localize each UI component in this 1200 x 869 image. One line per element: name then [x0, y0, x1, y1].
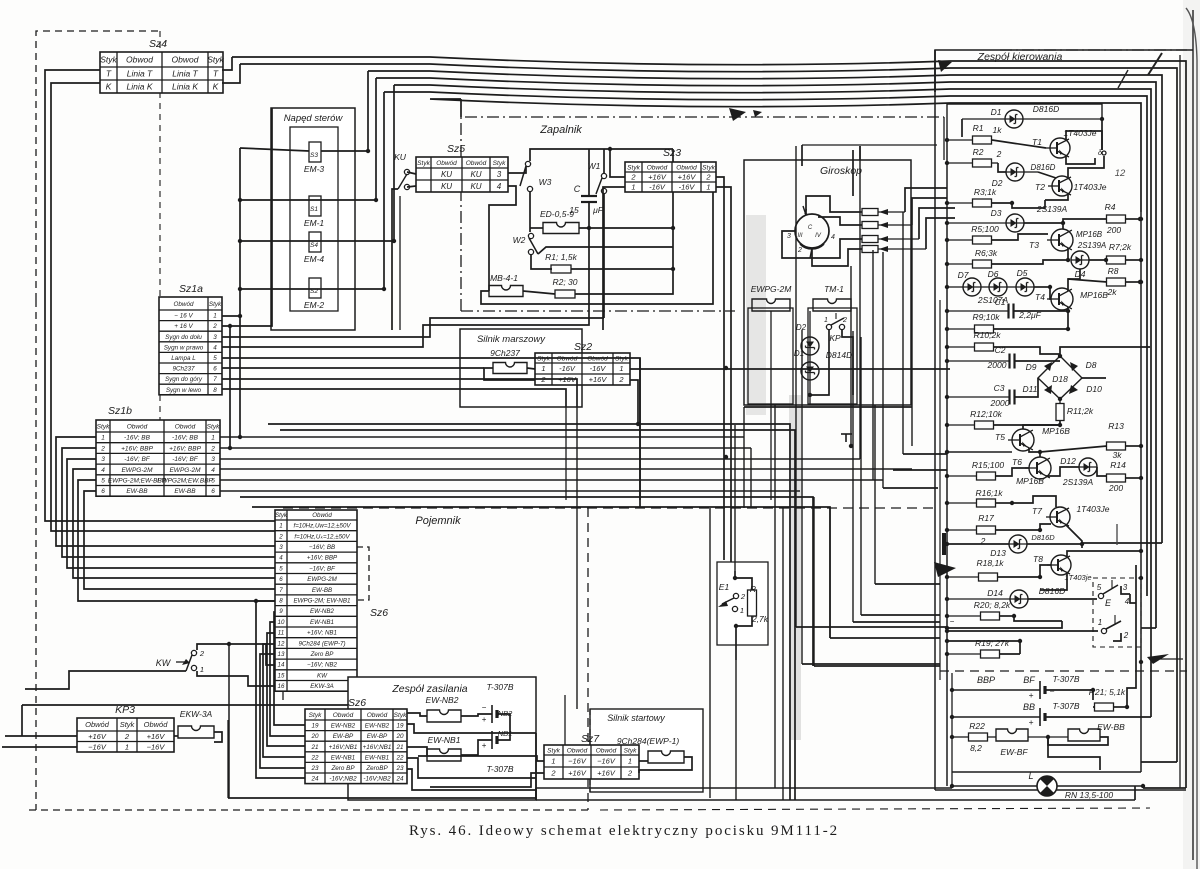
wire nested bottoms — [1082, 542, 1162, 544]
svg-text:μF: μF — [592, 205, 604, 215]
wire ED left — [530, 227, 543, 229]
svg-text:EWPG-2M; EW-NB1: EWPG-2M; EW-NB1 — [294, 598, 351, 605]
wire MB-4-1 loop — [481, 191, 713, 304]
wire Linia-T top run — [222, 57, 232, 70]
inner top frame (zk) — [947, 104, 1102, 130]
svg-text:TM-1: TM-1 — [824, 284, 844, 294]
svg-text:Rys. 46. Ideowy schemat elektr: Rys. 46. Ideowy schemat elektryczny poci… — [409, 823, 839, 839]
svg-text:Silnik marszowy: Silnik marszowy — [477, 334, 546, 345]
svg-text:Sz3: Sz3 — [663, 147, 681, 159]
svg-text:-16V; BB: -16V; BB — [124, 435, 151, 442]
wire EM-3 signal top run — [368, 71, 1162, 543]
svg-text:Sygn w lewo: Sygn w lewo — [166, 387, 202, 394]
svg-text:Giroskop: Giroskop — [820, 165, 862, 177]
gyro pickoff resistor 3 — [862, 236, 878, 243]
svg-text:Zespół kierowania: Zespół kierowania — [977, 51, 1063, 63]
svg-text:9Ch237: 9Ch237 — [172, 366, 195, 373]
svg-text:Styk: Styk — [209, 301, 222, 308]
wire W3 top node — [530, 149, 673, 161]
svg-text:1T403Je: 1T403Je — [1073, 182, 1106, 192]
svg-text:1T403је: 1T403је — [1064, 573, 1091, 582]
svg-text:-16V; BF: -16V; BF — [172, 456, 199, 463]
wire Sz3 right row2 down — [716, 177, 724, 560]
svg-text:1T403Je: 1T403Je — [1063, 128, 1096, 138]
wire T8 collector — [1067, 551, 1141, 557]
page edge scan line — [1192, 10, 1194, 860]
svg-text:EM-2: EM-2 — [304, 300, 325, 310]
wire R22 to EW-BF — [988, 736, 996, 738]
wire KP down — [810, 330, 829, 395]
wire EM-2 row — [240, 288, 384, 290]
svg-text:EW-NB1: EW-NB1 — [331, 754, 355, 761]
svg-text:+16V;NB1: +16V;NB1 — [363, 744, 392, 751]
wire R21 — [1093, 706, 1095, 708]
arrow pickoff 4 — [879, 246, 888, 252]
wire T3 collector/emitter — [1062, 223, 1064, 229]
svg-text:Lampa L: Lampa L — [171, 355, 196, 362]
wire Sz1b row4 left loop to Sz6 — [73, 469, 275, 578]
svg-text:IV: IV — [815, 233, 822, 239]
svg-text:-16V;NB2: -16V;NB2 — [363, 776, 391, 783]
svg-text:3k: 3k — [1113, 450, 1123, 460]
svg-text:Obwod: Obwod — [126, 55, 153, 65]
svg-text:R8: R8 — [1108, 266, 1119, 276]
svg-text:R9;10k: R9;10k — [973, 312, 1001, 322]
wire T8 emitter — [1040, 573, 1067, 590]
svg-text:D7: D7 — [958, 270, 969, 280]
wire D13 row — [947, 543, 1009, 545]
svg-text:Obwód: Obwód — [466, 160, 487, 167]
svg-text:EWPG-2M: EWPG-2M — [751, 284, 793, 294]
svg-text:6: 6 — [211, 488, 215, 495]
svg-text:9Ch284(EWP-1): 9Ch284(EWP-1) — [617, 736, 680, 746]
svg-text:Sygn do góry: Sygn do góry — [165, 376, 203, 383]
wire KP3 right to EKW-3A — [174, 735, 178, 737]
svg-text:W3: W3 — [539, 177, 552, 187]
wire Sz3 left row2 — [610, 149, 625, 177]
wire R9 row — [947, 328, 974, 330]
wire right bus 1141 — [1140, 212, 1142, 772]
svg-text:EW-BB: EW-BB — [1097, 722, 1125, 732]
svg-text:D816D: D816D — [1031, 533, 1055, 542]
svg-text:−: − — [1050, 686, 1055, 696]
svg-text:Obwód: Obwód — [144, 720, 169, 729]
box battery frame — [951, 673, 953, 786]
wire R2 row — [947, 162, 973, 164]
wire D1 row — [962, 118, 1005, 120]
wire D1 right down — [1101, 119, 1103, 150]
svg-text:2: 2 — [630, 173, 636, 182]
wire KW row16 — [197, 671, 275, 686]
box Zespol zasilania — [348, 677, 536, 800]
wire EM-1 row — [240, 199, 376, 201]
svg-text:2: 2 — [124, 732, 130, 741]
ground mark mid — [841, 433, 852, 435]
svg-text:L: L — [1028, 771, 1033, 781]
svg-text:1k: 1k — [993, 125, 1003, 135]
wire extra mid horizontals — [268, 424, 790, 800]
wire battery chain — [461, 714, 492, 716]
wire Sz1b row3 left loop to Sz6 — [67, 459, 275, 568]
wire squib loop — [484, 368, 535, 380]
switch E dashed box — [1093, 578, 1141, 647]
wire W3 down to W2 — [529, 192, 531, 232]
svg-text:K: K — [213, 82, 219, 92]
wire Sz4-K left to Sz6 pin2 — [51, 83, 275, 531]
arrow pickoff 3 — [879, 236, 888, 242]
svg-text:20: 20 — [310, 733, 319, 740]
pencil scribble — [1116, 524, 1118, 545]
svg-text:EWPG-2M: EWPG-2M — [121, 467, 153, 474]
transistor T2 (1T403Je) — [1048, 176, 1072, 196]
svg-text:Linia K: Linia K — [172, 82, 198, 92]
svg-text:22: 22 — [395, 754, 404, 761]
svg-text:Sz2: Sz2 — [574, 341, 592, 353]
wire EW-BF to EW-BB — [1028, 736, 1068, 738]
arrow pickoff 2 — [879, 222, 888, 228]
svg-text:+16V: +16V — [568, 769, 587, 778]
svg-text:+16V: +16V — [678, 173, 697, 182]
svg-text:4: 4 — [101, 467, 105, 474]
svg-text:D1: D1 — [991, 107, 1002, 117]
svg-text:1: 1 — [213, 313, 217, 320]
wire Sz4-T left to Sz6 pin1 — [45, 70, 275, 521]
wire R16 row — [947, 502, 976, 504]
svg-text:19: 19 — [396, 723, 404, 730]
svg-text:R13: R13 — [1108, 421, 1124, 431]
svg-text:2: 2 — [199, 649, 205, 658]
svg-text:T7: T7 — [1032, 506, 1042, 516]
wire C1 row — [947, 310, 1008, 312]
svg-text:R15;100: R15;100 — [972, 460, 1004, 470]
gyro rotor symbol — [795, 214, 829, 248]
svg-text:20: 20 — [395, 733, 404, 740]
svg-text:ED-0,5-9: ED-0,5-9 — [540, 209, 574, 219]
thick mark left bus — [942, 533, 946, 555]
wire EKW-3A right down — [214, 732, 222, 742]
electromagnet EM-1 — [309, 196, 321, 216]
wire Sz1b row2 left loop to Sz6 — [62, 448, 275, 557]
svg-text:Obwód: Obwód — [333, 712, 354, 719]
gyro wires to pickoffs — [806, 196, 862, 215]
svg-text:EW-NB2: EW-NB2 — [310, 608, 335, 615]
svg-text:21: 21 — [395, 744, 403, 751]
svg-text:2,7k: 2,7k — [751, 614, 769, 624]
svg-text:Zero BP: Zero BP — [330, 765, 355, 772]
wire vertical from Sz1a r8 — [565, 407, 567, 500]
wire EM-3 row — [321, 150, 368, 152]
switch W3 — [508, 167, 526, 173]
wire T2 links — [1038, 172, 1056, 178]
svg-text:MP16B: MP16B — [1016, 476, 1044, 486]
svg-text:3: 3 — [213, 334, 217, 341]
wire W2 down — [531, 255, 552, 269]
wire Sz1b row4 right run — [220, 468, 912, 470]
wire TM-1 bottom — [809, 395, 811, 405]
svg-text:D13: D13 — [990, 548, 1006, 558]
wire bottom run y788 — [536, 787, 952, 789]
svg-text:Sz1b: Sz1b — [108, 405, 132, 417]
svg-text:R18,1k: R18,1k — [977, 558, 1005, 568]
svg-text:Obwód: Obwód — [647, 164, 668, 171]
connector table Sz6 (pojemnik) — [275, 510, 357, 691]
svg-text:MP16B: MP16B — [1042, 426, 1070, 436]
svg-text:MB-4-1: MB-4-1 — [490, 273, 518, 283]
box E1 — [717, 562, 768, 645]
svg-text:EW-NB1: EW-NB1 — [428, 735, 461, 745]
svg-text:10: 10 — [278, 619, 285, 626]
wire R22 left — [952, 736, 968, 738]
wire Sz2 row1 right — [630, 368, 950, 370]
svg-text:22: 22 — [310, 754, 319, 761]
wire bottom right up — [1134, 786, 1136, 800]
svg-text:Sz1a: Sz1a — [179, 283, 203, 295]
svg-text:C1: C1 — [995, 297, 1006, 307]
svg-text:Sz6: Sz6 — [370, 607, 388, 619]
svg-text:+16V: +16V — [648, 173, 667, 182]
svg-text:Styk: Styk — [394, 712, 407, 719]
wire battery BF row — [952, 689, 1040, 691]
svg-text:Zapalnik: Zapalnik — [539, 124, 582, 136]
svg-text:T5: T5 — [995, 432, 1005, 442]
box Giroskop — [744, 160, 911, 405]
wire KP3 +16V left — [5, 735, 77, 737]
wire T4 emitter down — [1067, 307, 1069, 327]
svg-text:Obwód: Obwód — [175, 423, 196, 430]
svg-text:-16V: -16V — [649, 183, 666, 192]
svg-text:+16V: +16V — [597, 769, 616, 778]
svg-text:K: K — [106, 82, 112, 92]
svg-text:5: 5 — [213, 355, 217, 362]
wire EM-1 signal top run — [376, 78, 1156, 628]
svg-text:−16V; NB2: −16V; NB2 — [307, 662, 338, 669]
wire R7 right — [1126, 259, 1140, 261]
wire EM-4 signal top run — [394, 85, 1151, 717]
svg-text:7: 7 — [213, 376, 217, 383]
svg-text:Linia T: Linia T — [172, 69, 198, 79]
svg-text:Styk: Styk — [624, 747, 637, 754]
wire Sz6 row14 to zasilanie — [256, 601, 305, 778]
svg-text:1: 1 — [628, 757, 632, 766]
svg-text:EM-4: EM-4 — [304, 254, 325, 264]
inner frame Naped sterow — [290, 127, 338, 311]
svg-text:1: 1 — [101, 435, 105, 442]
svg-text:T: T — [213, 69, 219, 79]
wire mid right corners into zk — [903, 453, 947, 455]
wire bridge top right — [1060, 347, 1150, 356]
zener D13 (D816D) — [1009, 535, 1027, 553]
svg-text:ZeroBP: ZeroBP — [365, 765, 388, 772]
svg-text:1: 1 — [1098, 618, 1102, 627]
svg-text:3: 3 — [101, 456, 105, 463]
svg-text:1: 1 — [279, 523, 282, 530]
svg-text:EW-BB: EW-BB — [126, 488, 148, 495]
svg-text:23: 23 — [395, 765, 404, 772]
svg-text:5: 5 — [101, 478, 105, 485]
wire KP3 -16V left — [2, 746, 77, 748]
svg-text:C3: C3 — [994, 383, 1005, 393]
svg-text:EW-NB1: EW-NB1 — [365, 754, 389, 761]
wire T2 emitter down — [1045, 194, 1068, 200]
svg-text:EW-NB2: EW-NB2 — [426, 695, 459, 705]
svg-text:+16V; NB1: +16V; NB1 — [307, 630, 337, 637]
svg-text:R10;2k: R10;2k — [974, 330, 1002, 340]
svg-text:7: 7 — [279, 587, 283, 594]
wire Sz1b row1 left loop to Sz6 — [56, 437, 275, 546]
wire Sz6 row10 to zasilanie — [270, 622, 305, 736]
wire R8 — [1068, 279, 1107, 282]
svg-text:BF: BF — [1023, 675, 1035, 685]
wire bottom rows (zk) — [952, 771, 1141, 773]
svg-text:KU: KU — [394, 152, 407, 162]
wire vertical EKW down — [228, 644, 230, 798]
svg-text:2: 2 — [740, 592, 746, 601]
svg-text:9: 9 — [279, 608, 283, 615]
svg-text:−16V: −16V — [147, 743, 166, 752]
svg-text:−16V; BF: −16V; BF — [309, 565, 336, 572]
wire Sz1a row4 — [222, 228, 589, 347]
svg-text:2S139A: 2S139A — [1036, 204, 1068, 214]
svg-text:14: 14 — [278, 662, 285, 669]
svg-text:T2: T2 — [1035, 182, 1045, 192]
svg-text:EW-BB: EW-BB — [174, 488, 196, 495]
pen slash mark — [1148, 53, 1162, 75]
svg-text:Sygn do dołu: Sygn do dołu — [165, 334, 202, 341]
svg-text:E: E — [1105, 598, 1112, 608]
wire KW to KP3 — [25, 671, 186, 689]
wire W1 top to node — [603, 149, 605, 173]
svg-text:D9: D9 — [1026, 362, 1037, 372]
wire Sz1b row3 right run — [220, 458, 860, 460]
wire E wiring — [947, 630, 1098, 632]
wire R2 right up node — [575, 149, 673, 294]
svg-text:R7;2k: R7;2k — [1109, 242, 1132, 252]
wire R5 row — [947, 239, 973, 241]
svg-text:15: 15 — [278, 672, 285, 679]
svg-text:Styk: Styk — [275, 512, 288, 519]
wire R20 row — [947, 615, 980, 617]
svg-text:6: 6 — [279, 576, 283, 583]
svg-text:+16V: +16V — [589, 375, 608, 384]
svg-text:D816D: D816D — [1031, 163, 1056, 172]
svg-text:Obwód: Obwód — [676, 164, 697, 171]
svg-text:f=10Hz,Uᴡ=12,±50V: f=10Hz,Uᴡ=12,±50V — [293, 523, 351, 530]
svg-text:2: 2 — [212, 323, 217, 330]
left bus B (zk) — [939, 300, 941, 680]
wire Zapalnik top run — [430, 99, 1141, 212]
svg-text:2: 2 — [627, 769, 633, 778]
svg-text:D14: D14 — [987, 588, 1003, 598]
svg-text:5: 5 — [279, 565, 283, 572]
wire R10 row — [947, 346, 974, 348]
svg-text:Obwód: Obwód — [127, 423, 148, 430]
svg-text:2: 2 — [1123, 631, 1129, 640]
svg-text:1T403Je: 1T403Je — [1076, 504, 1109, 514]
svg-text:R2; 30: R2; 30 — [552, 277, 577, 287]
wire R11 — [1059, 399, 1061, 404]
svg-text:EW-BP: EW-BP — [333, 733, 354, 740]
svg-text:-16V: -16V — [559, 364, 576, 373]
gyro output wires right — [905, 188, 947, 212]
svg-text:C2: C2 — [995, 345, 1006, 355]
wire D14 row — [947, 598, 1010, 600]
svg-text:R20; 8,2k: R20; 8,2k — [974, 600, 1011, 610]
svg-text:1: 1 — [631, 183, 635, 192]
svg-text:−: − — [950, 617, 955, 626]
wire vertical from Sz1a r7 — [576, 407, 578, 709]
wire R4 — [1063, 219, 1107, 223]
svg-text:1: 1 — [824, 317, 828, 324]
lamp L RN13,5-100 — [952, 785, 1037, 787]
svg-text:T-307B: T-307B — [1052, 701, 1079, 711]
svg-text:R: R — [750, 584, 756, 594]
wire Sz1b row5 left loop to Sz6 — [78, 480, 275, 601]
svg-text:MP16B: MP16B — [1076, 230, 1103, 239]
svg-text:19: 19 — [311, 723, 319, 730]
wire Sz1b row2 right run — [220, 447, 751, 449]
svg-text:2: 2 — [100, 445, 105, 452]
svg-text:3: 3 — [1123, 583, 1128, 592]
svg-text:Linia K: Linia K — [127, 82, 153, 92]
wire R6 row — [947, 263, 973, 265]
svg-text:BB: BB — [1023, 702, 1035, 712]
svg-text:KW: KW — [317, 672, 328, 679]
svg-text:Sz6: Sz6 — [348, 697, 366, 709]
svg-text:RN 13,5-100: RN 13,5-100 — [1065, 790, 1113, 800]
svg-text:T-307B: T-307B — [1052, 674, 1079, 684]
capacitor C1 2,2uF — [1007, 304, 1009, 319]
svg-text:EW-BB: EW-BB — [312, 587, 332, 594]
wire T4 collector to D4 — [1068, 269, 1080, 291]
svg-text:Pojemnik: Pojemnik — [415, 515, 461, 527]
battery NB1 T-307B — [491, 731, 493, 749]
wire Sz1a row7 — [222, 379, 577, 407]
svg-text:6: 6 — [101, 488, 105, 495]
svg-text:2: 2 — [550, 769, 556, 778]
svg-text:Styk: Styk — [417, 160, 430, 167]
wire Sz5 row4 down — [489, 186, 516, 240]
svg-text:D12: D12 — [1060, 456, 1076, 466]
svg-text:R5;100: R5;100 — [971, 224, 999, 234]
wire Sz1b row6 left loop to Sz6 — [84, 491, 275, 589]
wire T6 emitter to D12 — [1046, 467, 1079, 476]
svg-text:24: 24 — [395, 776, 404, 783]
wire verticals mid going down — [709, 508, 711, 798]
wire Sz1a row3 to right — [222, 318, 604, 337]
wire Sz2 row2 right down — [630, 380, 638, 424]
svg-text:6: 6 — [213, 366, 217, 373]
svg-text:Styk: Styk — [97, 423, 110, 430]
svg-text:R19; 27k: R19; 27k — [975, 638, 1010, 648]
svg-text:Sygn w prawo: Sygn w prawo — [164, 344, 204, 351]
svg-text:Styk: Styk — [207, 55, 224, 65]
svg-text:MP16B: MP16B — [1080, 290, 1108, 300]
svg-text:R12;10k: R12;10k — [970, 409, 1002, 419]
svg-text:+: + — [1029, 717, 1034, 727]
svg-text:23: 23 — [310, 765, 319, 772]
svg-text:−16V; BB: −16V; BB — [309, 544, 335, 551]
svg-text:Styk: Styk — [309, 712, 322, 719]
wire Sz1a row6 — [222, 367, 484, 369]
svg-text:KW: KW — [156, 658, 172, 668]
svg-text:−16V: −16V — [568, 757, 587, 766]
svg-text:W2: W2 — [513, 235, 526, 245]
svg-text:1: 1 — [706, 183, 710, 192]
svg-text:12: 12 — [1115, 168, 1126, 179]
wire Sz1a row8 — [222, 389, 566, 407]
gyro pickoff resistor 2 — [862, 222, 878, 229]
gyro feed wires — [852, 150, 854, 196]
